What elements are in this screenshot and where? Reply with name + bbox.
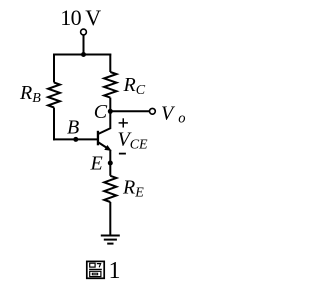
svg-text:E: E xyxy=(90,153,103,175)
svg-text:1: 1 xyxy=(109,258,121,284)
svg-text:B: B xyxy=(67,117,79,139)
svg-text:C: C xyxy=(94,101,108,123)
svg-text:10 V: 10 V xyxy=(60,5,101,30)
